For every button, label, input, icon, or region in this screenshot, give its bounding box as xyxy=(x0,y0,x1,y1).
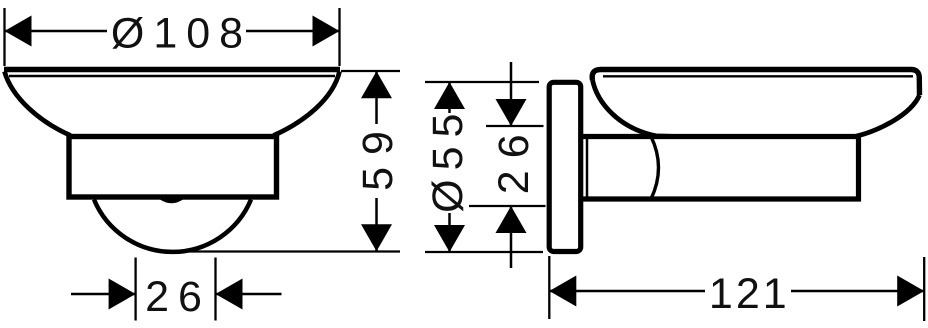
dim Ø108 right arrow xyxy=(313,16,340,47)
dim Ø55 dimension line xyxy=(448,82,451,252)
arm root vertical line xyxy=(586,137,589,200)
dim Ø108 left extension line xyxy=(3,8,5,66)
dim 121 right arrow xyxy=(897,276,924,307)
dim 121 text xyxy=(705,270,791,318)
dim 121 right extension line xyxy=(923,257,925,321)
dim 26 left-view right extension line xyxy=(214,258,216,321)
wall plate arc behind collar xyxy=(94,200,251,252)
svg-text:121: 121 xyxy=(709,270,790,318)
dim Ø55 bottom arrow xyxy=(434,225,465,252)
arm outline xyxy=(583,137,859,200)
dim Ø55 text (rotated) xyxy=(424,105,472,213)
dish side underside right curve xyxy=(856,95,920,136)
dim 26 left-view left tail line xyxy=(71,293,136,296)
svg-text:Ø108: Ø108 xyxy=(111,10,252,58)
arm stub bump below collar xyxy=(160,200,183,204)
svg-text:26: 26 xyxy=(490,122,538,194)
dim 26 side-view bottom tail line xyxy=(510,206,513,268)
dim Ø108 right extension line xyxy=(338,8,340,66)
dim 26 left-view left extension line xyxy=(134,258,136,321)
dim 59 dimension line xyxy=(375,71,378,251)
dim 121 dimension line xyxy=(549,290,924,293)
dish bowl underside right curve xyxy=(274,72,340,136)
dim 121 left extension line xyxy=(548,256,550,319)
dish rim top line xyxy=(4,67,340,72)
dim 59 top extension line xyxy=(341,70,400,72)
dim 26 left-view right tail line xyxy=(216,293,282,296)
dim 59 bottom extension line xyxy=(180,250,400,252)
dim 26 side-view bottom arrow xyxy=(496,206,527,233)
dim Ø55 bottom extension line xyxy=(425,251,543,253)
dim 121 left arrow xyxy=(549,276,576,307)
dim Ø108 left arrow xyxy=(5,16,32,47)
dish side underside left curve xyxy=(593,80,673,136)
dim 59 text (rotated) xyxy=(354,119,402,198)
dim 26 side-view top extension line xyxy=(486,125,544,127)
dim 26 left-view right arrow xyxy=(216,279,243,310)
dim Ø55 top extension line xyxy=(425,81,539,83)
wall plate rounded rect xyxy=(549,82,581,251)
collar rectangle xyxy=(69,137,277,198)
dim 59 top arrow xyxy=(361,71,392,98)
dim 59 bottom arrow xyxy=(361,224,392,251)
svg-text:59: 59 xyxy=(354,119,402,191)
dish bowl underside left curve xyxy=(5,72,71,136)
dim 26 side-view top arrow xyxy=(496,99,527,126)
dim Ø108 text xyxy=(107,10,252,58)
dim 26 side-view top tail line xyxy=(510,62,513,126)
dish side rim outline xyxy=(592,70,919,96)
dim 26 left-view left arrow xyxy=(109,279,136,310)
dish side rim inner thin line xyxy=(603,75,913,77)
svg-text:Ø55: Ø55 xyxy=(424,105,472,213)
dim Ø55 top arrow xyxy=(434,82,465,109)
svg-text:26: 26 xyxy=(145,273,211,321)
arm taper arc xyxy=(651,137,659,200)
dish rim inner thin line xyxy=(9,75,335,77)
dim 26 side-view bottom extension line xyxy=(469,205,546,207)
dim Ø108 dimension line xyxy=(5,30,340,33)
